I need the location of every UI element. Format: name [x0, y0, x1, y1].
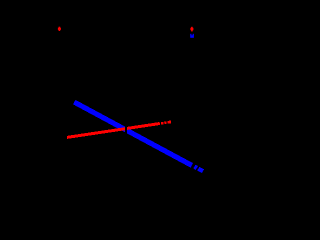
red line series (main solid segment) [67, 124, 160, 138]
red line series dash 2 [164, 121, 166, 124]
blue line series (main solid segment) [74, 102, 192, 165]
blue line series dash 2 (end blob) [198, 169, 203, 172]
red line series dash 1 [161, 122, 163, 125]
red line series dash 3 (end blob) [168, 121, 171, 124]
red diamond marker (right) [190, 27, 193, 32]
black gap artifact at line crossing [125, 124, 127, 136]
red diamond marker (left) [58, 27, 61, 31]
blue line series dash 1 [194, 167, 197, 168]
blue heart/notched marker [190, 34, 194, 38]
